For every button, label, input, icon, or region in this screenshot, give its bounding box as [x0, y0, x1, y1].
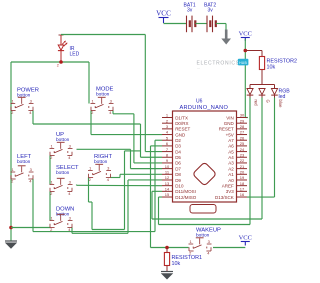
- svg-text:A1: A1: [228, 172, 234, 177]
- U6 right pins 30-16: [237, 117, 248, 119]
- wire DOWN pin4 to D9: [71, 228, 73, 234]
- svg-text:D10: D10: [175, 183, 184, 188]
- svg-text:26: 26: [240, 135, 245, 140]
- svg-text:10: 10: [165, 164, 170, 169]
- svg-text:3V3: 3V3: [226, 189, 235, 194]
- svg-text:15: 15: [165, 192, 170, 197]
- wire UP-SELECT common chain: [49, 156, 51, 185]
- svg-text:13: 13: [165, 181, 170, 186]
- wire RGB green diode to D11/MOSI: [261, 98, 263, 220]
- wire left GND rail: [10, 62, 12, 241]
- svg-text:25: 25: [240, 141, 245, 146]
- U6 bottom connector decoration: [190, 205, 216, 214]
- svg-text:POWER: POWER: [17, 88, 39, 94]
- svg-text:2: 2: [57, 63, 59, 67]
- svg-text:A4: A4: [228, 155, 234, 160]
- svg-text:D1/TX: D1/TX: [175, 115, 188, 120]
- svg-text:VIN: VIN: [226, 115, 234, 120]
- junction RESISTOR1: [165, 246, 169, 250]
- svg-text:UP: UP: [56, 132, 64, 138]
- svg-text:D2: D2: [175, 138, 181, 143]
- svg-text:A3: A3: [228, 161, 234, 166]
- LED IR LED: [59, 34, 64, 36]
- wire VCC to BAT1: [164, 23, 187, 25]
- svg-text:RIGHT: RIGHT: [94, 154, 112, 160]
- svg-text:28: 28: [240, 124, 245, 129]
- svg-text:19: 19: [240, 175, 245, 180]
- svg-text:GND: GND: [224, 121, 235, 126]
- wire SELECT pin3 to D10: [76, 184, 78, 187]
- wire IR LED anode to D4: [61, 34, 145, 36]
- junction DOWN row: [9, 226, 13, 230]
- svg-text:3v: 3v: [208, 8, 214, 14]
- wire RGB red diode to D12/MISO: [249, 98, 251, 225]
- junction LED cathode: [59, 60, 63, 64]
- wire POWER pin4 to D5: [32, 111, 34, 125]
- wire SELECT-DOWN common chain: [49, 192, 51, 221]
- wire BAT2 to arrow: [216, 23, 226, 25]
- svg-text:D11/MOSI: D11/MOSI: [175, 189, 196, 194]
- wire BAT1 to BAT2: [195, 23, 207, 25]
- svg-text:U6: U6: [196, 99, 203, 105]
- wire LEFT pin4 to D2 riser: [32, 179, 34, 232]
- svg-text:3v: 3v: [187, 8, 193, 14]
- svg-text:DOWN: DOWN: [56, 207, 74, 213]
- svg-text:+5V: +5V: [226, 132, 234, 137]
- svg-text:A6: A6: [228, 144, 234, 149]
- wire WAKEUP pin3 to VCC: [213, 247, 245, 249]
- svg-text:SELECT: SELECT: [56, 165, 79, 171]
- svg-text:17: 17: [240, 187, 245, 192]
- svg-text:LED: LED: [70, 51, 80, 57]
- svg-text:G: G: [265, 100, 270, 103]
- svg-text:blue: blue: [278, 100, 283, 109]
- wire MODE pin2 to U6 GND pin4: [90, 111, 92, 135]
- svg-text:12: 12: [165, 175, 170, 180]
- svg-text:WAKEUP: WAKEUP: [196, 228, 221, 234]
- wire RIGHT pin4 to D8: [111, 177, 121, 179]
- svg-text:A5: A5: [228, 149, 234, 154]
- svg-text:D9: D9: [175, 178, 181, 183]
- wire UP pin3 to D7: [77, 148, 131, 150]
- svg-text:27: 27: [240, 130, 245, 135]
- svg-text:23: 23: [240, 152, 245, 157]
- svg-text:D6: D6: [175, 161, 181, 166]
- svg-text:RESET: RESET: [175, 127, 190, 132]
- ground symbol 2: [161, 271, 173, 273]
- svg-text:MODE: MODE: [96, 87, 114, 93]
- svg-text:D12/MISO: D12/MISO: [175, 195, 197, 200]
- svg-text:led: led: [279, 94, 286, 100]
- wire RESISTOR2 to RGB anode rail: [261, 70, 263, 85]
- wire MODE pin4 to D6: [112, 111, 114, 114]
- wire GND top rail: [11, 61, 89, 63]
- U6 left pins 1-15: [162, 117, 173, 119]
- svg-text:D8: D8: [175, 172, 181, 177]
- wire VCC to VIN and resistor2 junction: [244, 39, 246, 118]
- svg-text:...: ...: [197, 66, 200, 70]
- svg-text:18: 18: [240, 181, 245, 186]
- svg-text:VCC: VCC: [239, 31, 252, 38]
- svg-text:AREF: AREF: [222, 183, 234, 188]
- wire RIGHT pin2 rail: [88, 178, 90, 203]
- svg-text:ARDUINO_NANO: ARDUINO_NANO: [180, 105, 229, 111]
- svg-text:RESET: RESET: [219, 127, 234, 132]
- svg-text:HUB: HUB: [239, 61, 247, 65]
- svg-text:VCC: VCC: [239, 235, 252, 242]
- svg-text:botton: botton: [96, 92, 110, 98]
- svg-text:LEFT: LEFT: [17, 154, 32, 160]
- svg-text:A7: A7: [228, 138, 234, 143]
- svg-text:A0: A0: [228, 178, 234, 183]
- svg-text:botton: botton: [56, 170, 70, 176]
- svg-text:D4: D4: [175, 149, 181, 154]
- U6 diamond decoration: [192, 162, 216, 186]
- ground symbol: [5, 240, 17, 242]
- svg-text:14: 14: [165, 187, 170, 192]
- supply arrow down: [225, 30, 228, 39]
- wire MODE pin1 drop: [88, 62, 90, 104]
- wire RGB blue diode to D13/SCK: [274, 98, 276, 198]
- svg-text:20: 20: [240, 170, 245, 175]
- svg-text:30: 30: [240, 113, 245, 118]
- svg-text:VCC: VCC: [156, 10, 171, 18]
- RGB led diodes: [247, 89, 253, 95]
- svg-text:16: 16: [240, 192, 245, 197]
- svg-text:D5: D5: [175, 155, 181, 160]
- svg-text:24: 24: [240, 147, 245, 152]
- svg-text:22: 22: [240, 158, 245, 163]
- svg-text:red: red: [253, 100, 258, 107]
- wire GND rail to DOWN pin2: [11, 227, 50, 229]
- svg-text:A2: A2: [228, 166, 234, 171]
- resistor R RESISTOR2 10k: [259, 57, 264, 70]
- svg-text:D13/SCK: D13/SCK: [215, 195, 234, 200]
- junction VCC/RESISTOR2: [244, 49, 248, 53]
- svg-text:10k: 10k: [267, 65, 276, 71]
- wire RESISTOR1 to ground: [166, 266, 168, 272]
- svg-text:10k: 10k: [172, 261, 181, 267]
- svg-text:GND: GND: [175, 132, 186, 137]
- svg-text:29: 29: [240, 118, 245, 123]
- svg-text:21: 21: [240, 164, 245, 169]
- svg-text:ELECTRONICS: ELECTRONICS: [197, 61, 240, 67]
- svg-text:D3: D3: [175, 144, 181, 149]
- svg-text:botton: botton: [17, 93, 31, 99]
- svg-text:D0/RX: D0/RX: [175, 121, 188, 126]
- op-amp U6 ARDUINO_NANO box: [173, 111, 237, 202]
- svg-text:D7: D7: [175, 166, 181, 171]
- resistor R RESISTOR1 10k: [166, 248, 168, 253]
- wire WAKEUP / RESISTOR1 to D3: [151, 145, 163, 147]
- svg-text:botton: botton: [17, 159, 31, 165]
